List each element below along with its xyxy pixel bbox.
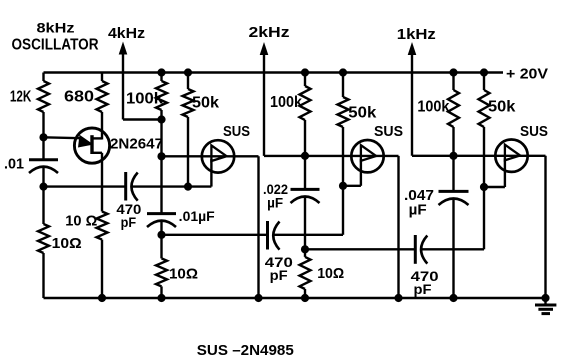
wire 680 bottom lead (to B2) [101, 112, 103, 140]
wire osc to 470pF-1 [44, 185, 126, 187]
wire 100k-3 top lead [452, 73, 454, 91]
capacitor C1 .01 [29, 139, 58, 187]
wire 2kHz tap horizontal [264, 155, 305, 157]
transistor Q1 2N2647 unijunction [44, 128, 110, 163]
resistor R 100k first [156, 81, 167, 110]
wire SUS1 cathode down [257, 156, 259, 298]
junction SUS1 anode [158, 153, 165, 160]
wire 1kHz output line [411, 53, 413, 156]
wire 50k-1 top lead [187, 73, 189, 90]
junction 100k-2 top [301, 69, 308, 76]
svg-text:10 Ω: 10 Ω [65, 213, 97, 230]
wire coupling1 left [162, 234, 268, 236]
wire 1kHz tap horizontal [412, 155, 454, 157]
resistor R 12K [38, 81, 49, 112]
resistor R 100k second [300, 86, 311, 120]
resistor R 10 ohm third [156, 258, 167, 286]
wire 100k-1 bottom lead [160, 110, 162, 120]
resistor R 10 ohm second [97, 212, 108, 240]
svg-text:8kHz: 8kHz [37, 21, 75, 36]
wire SUS1 anode-cathode line [162, 155, 259, 157]
svg-text:50k: 50k [192, 95, 219, 112]
thyristor SUS3 [495, 140, 527, 172]
junction SUS3 anode [450, 152, 457, 159]
svg-text:pF: pF [121, 214, 137, 230]
svg-text:µF: µF [409, 202, 427, 219]
wire 50k-3 top lead [483, 73, 485, 91]
wire SUS3 gate horizontal [484, 186, 505, 188]
junction ground rail right [542, 294, 549, 301]
wire 50k-3 bottom lead [483, 127, 485, 187]
junction SUS3 gate node [480, 183, 487, 190]
arrow 2kHz output [260, 42, 269, 55]
node oscillator output junction [40, 183, 47, 190]
junction SUS2 cathode ground [395, 294, 402, 301]
capacitor C3 .01uF [147, 156, 176, 235]
svg-text:µF: µF [267, 196, 283, 211]
thyristor SUS2 [351, 140, 383, 172]
svg-text:.01µF: .01µF [179, 209, 215, 224]
wire col2 10ohm to ground rail [101, 240, 103, 298]
wire 4kHz output line [122, 52, 124, 120]
wire coupling1 riser [342, 186, 344, 235]
junction SUS2 gate node [339, 182, 346, 189]
wire 50k-2 bottom lead [342, 127, 344, 186]
junction .01uF bottom node [158, 231, 165, 238]
svg-text:.01: .01 [4, 156, 24, 173]
wire col3 node to 10ohm [160, 235, 162, 259]
arrow 1kHz output [408, 42, 417, 55]
junction 50k-2 top [339, 69, 346, 76]
svg-text:pF: pF [270, 267, 288, 283]
wire SUS2 cathode down [397, 156, 399, 298]
svg-text:SUS: SUS [374, 123, 403, 140]
ground symbol [535, 298, 556, 314]
thyristor SUS1 [202, 140, 234, 172]
wire SUS2 anode-cathode line [305, 155, 399, 157]
wire 12K bottom lead [42, 112, 44, 139]
wire SUS2 gate lead [360, 159, 362, 186]
wire 50k-2 top lead [342, 73, 344, 98]
svg-text:2N2647: 2N2647 [110, 136, 163, 153]
svg-text:SUS: SUS [223, 123, 250, 140]
wire 100k-2 top lead [304, 73, 306, 87]
wire 680 top lead [101, 73, 103, 82]
wire 100k-2 bottom lead [304, 120, 306, 156]
svg-text:pF: pF [414, 281, 432, 297]
svg-text:10Ω: 10Ω [169, 266, 198, 283]
wire coupling1 right [273, 234, 343, 236]
capacitor C5 .022uF [291, 156, 320, 249]
wire SUS2 gate horizontal [343, 185, 361, 187]
svg-text:SUS –2N4985: SUS –2N4985 [197, 342, 294, 359]
junction col2 ground [98, 294, 105, 301]
capacitor C4 470pF second [268, 221, 280, 250]
wire 50k-1 bottom lead [187, 117, 189, 187]
svg-text:50k: 50k [348, 105, 376, 122]
svg-text:SUS: SUS [520, 123, 548, 140]
resistor R 680 [97, 81, 108, 112]
wire coupling2 right [421, 248, 484, 250]
wire col1 cap to 10ohm [42, 187, 44, 224]
svg-text:+ 20V: + 20V [506, 66, 548, 83]
wire SUS3 gate lead [504, 158, 506, 187]
junction 100k-3 top [450, 69, 457, 76]
svg-text:50k: 50k [488, 99, 515, 116]
capacitor C7 .047uF [439, 156, 469, 298]
wire coupling2 riser [483, 187, 485, 249]
resistor R 10 ohm fourth [300, 257, 311, 289]
wire +20V supply rail [44, 71, 504, 73]
capacitor C2 470pF first [126, 172, 138, 201]
wire SUS1 gate horizontal [188, 185, 211, 187]
svg-text:10Ω: 10Ω [317, 265, 344, 282]
junction 100k-1 top [158, 69, 165, 76]
svg-text:12K: 12K [10, 89, 32, 106]
svg-text:OSCILLATOR: OSCILLATOR [12, 37, 99, 54]
junction emitter node [40, 134, 47, 141]
resistor R 10 ohm first [38, 224, 49, 253]
junction SUS1 cathode ground [255, 294, 262, 301]
wire col9 node to 10ohm [304, 249, 306, 257]
wire 4kHz tap horizontal [123, 118, 162, 120]
junction 50k-1 top [184, 69, 191, 76]
wire col9 10ohm to rail [304, 289, 306, 298]
wire 2kHz output line [263, 53, 265, 156]
wire SUS1 gate lead [210, 159, 212, 187]
svg-text:100k: 100k [270, 94, 302, 111]
capacitor C6 470pF third [415, 235, 427, 264]
svg-text:1kHz: 1kHz [397, 26, 436, 43]
junction 50k-3 top [480, 69, 487, 76]
svg-text:680: 680 [64, 89, 94, 106]
wire col3 tap to anode [160, 120, 162, 157]
wire coupling2 left [305, 248, 415, 250]
junction col3 ground [158, 294, 165, 301]
wire 100k-1 top lead [160, 73, 162, 82]
wire SUS3 cathode down [544, 156, 546, 298]
node 4kHz tap junction [158, 116, 165, 123]
resistor R 50k third [479, 90, 490, 127]
svg-text:100k: 100k [126, 91, 163, 108]
junction col9 ground [301, 294, 308, 301]
resistor R 50k first [183, 89, 194, 117]
svg-text:10Ω: 10Ω [52, 235, 82, 252]
wire B1 lead down [101, 153, 103, 212]
wire SUS3 anode-cathode line [454, 155, 546, 157]
wire col3 10ohm to rail [160, 286, 162, 298]
svg-text:2kHz: 2kHz [249, 24, 290, 41]
wire ground rail [44, 297, 546, 299]
wire col1 10ohm to ground rail [42, 253, 44, 298]
resistor R 100k third [448, 90, 459, 127]
junction col15 ground [450, 294, 457, 301]
resistor R 50k second [338, 97, 349, 127]
wire 12K top lead [42, 73, 44, 82]
junction .022 bottom node [301, 246, 308, 253]
junction SUS2 anode [301, 152, 308, 159]
wire 100k-3 bottom lead [452, 127, 454, 156]
svg-text:100k: 100k [417, 99, 449, 116]
junction SUS1 gate node [184, 183, 191, 190]
svg-text:4kHz: 4kHz [108, 25, 145, 42]
arrow 4kHz output [119, 42, 128, 55]
wire 470pF-1 to gate node [132, 185, 189, 187]
